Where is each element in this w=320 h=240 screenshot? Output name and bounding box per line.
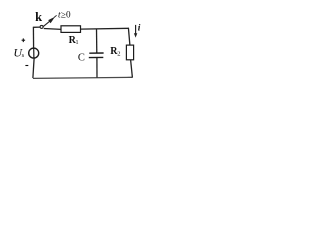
switch blade [43,20,51,27]
resistor R1 box [61,26,81,33]
current arrow i [135,25,137,34]
wire through source [33,48,35,58]
capacitor stem upper [96,29,98,53]
svg-text:1: 1 [75,39,78,46]
svg-text:i: i [138,24,141,34]
svg-text:C: C [78,53,85,64]
wire left vertical lower [33,58,34,78]
wire right vertical upper [128,28,130,46]
capacitor stem lower [96,58,98,78]
resistor R2 box [126,45,133,60]
switch arrowhead [48,17,55,24]
capacitor C top plate [89,52,103,54]
wire top-left stub [33,26,40,28]
switch k contact circle [40,25,43,28]
wire right vertical lower [131,60,133,78]
wire R1 to top-right corner [81,27,129,30]
svg-text:k: k [35,10,42,24]
wire bottom [33,77,132,78]
label + (source polarity) [22,39,26,41]
svg-text:s: s [22,52,25,59]
capacitor C bottom plate [89,56,104,58]
wire switch to R1 [44,28,62,31]
label - (source polarity) [25,65,28,67]
wire left vertical upper [32,27,34,49]
svg-text:t≥0: t≥0 [58,10,71,20]
svg-text:2: 2 [117,50,120,57]
voltage source Us circle [29,48,39,58]
